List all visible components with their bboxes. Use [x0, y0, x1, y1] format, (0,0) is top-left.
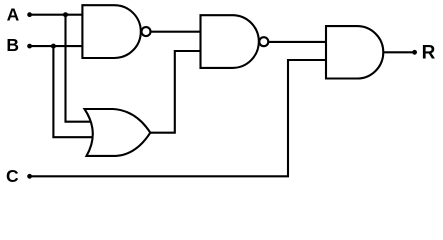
terminal dot C	[27, 174, 32, 179]
wire B to NAND1 lower input	[30, 45, 84, 47]
wire A to NAND1 upper input	[30, 14, 84, 16]
wire OR output up to NAND2 lower input	[150, 51, 202, 133]
svg-text:C: C	[6, 166, 19, 186]
junction node on B line	[51, 44, 56, 49]
nand gate U3 inversion bubble	[259, 37, 268, 46]
nand gate U1 body	[82, 5, 140, 58]
junction node on A line	[63, 12, 68, 17]
wire from node on B line down to OR lower input	[53, 46, 96, 137]
terminal dot A	[27, 12, 32, 17]
wire NAND1 output to NAND2 upper input	[151, 31, 203, 33]
or gate U2 body	[85, 109, 151, 156]
svg-text:B: B	[6, 35, 19, 55]
wire from node on A line down to OR upper input	[66, 15, 97, 122]
wire NAND2 output to AND upper input	[268, 41, 327, 43]
terminal dot R	[412, 50, 417, 55]
wire AND output to R	[383, 51, 414, 53]
terminal dot B	[27, 44, 32, 49]
and gate U4 body	[326, 26, 383, 78]
svg-text:A: A	[7, 5, 20, 25]
svg-text:R: R	[422, 43, 436, 64]
nand gate U1 inversion bubble	[142, 27, 151, 36]
wire C to AND lower input	[30, 60, 327, 176]
nand gate U3 body	[201, 15, 259, 68]
